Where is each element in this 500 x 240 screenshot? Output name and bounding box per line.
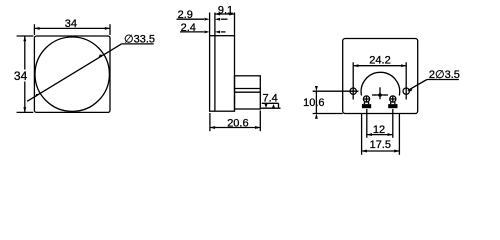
9.1 dimension line — [215, 13, 235, 15]
bezel front square — [34, 36, 110, 112]
2x3.5 underline — [427, 79, 459, 81]
svg-text:∅33.5: ∅33.5 — [124, 34, 155, 46]
12 arrow right — [388, 133, 393, 136]
10.6 bottom extension line — [313, 113, 343, 115]
svg-text:34: 34 — [14, 69, 28, 83]
rear body outline — [343, 39, 418, 114]
top dim arrow left — [34, 27, 39, 30]
svg-text:34: 34 — [65, 18, 77, 30]
rear body rectangle — [235, 76, 261, 109]
terminal right slot vertical — [392, 96, 394, 102]
leader underline — [122, 43, 154, 45]
top dim arrow right — [105, 27, 110, 30]
24.2 dimension line — [353, 65, 406, 67]
12 dimension line — [367, 134, 393, 136]
center target left tick — [372, 94, 376, 96]
9.1 arrow left — [215, 13, 220, 16]
leader arrowhead lower — [35, 94, 40, 98]
leader arrowhead upper — [99, 55, 104, 58]
17.5 arrow right — [394, 150, 399, 153]
svg-text:2∅3.5: 2∅3.5 — [429, 69, 460, 81]
10.6 dimension line — [315, 91, 317, 113]
top dim extension line left — [33, 24, 35, 35]
7.4 upper arrow — [264, 103, 267, 108]
left dim arrow bottom — [23, 107, 26, 112]
mounting hole left vertical centerline — [352, 62, 354, 99]
terminal right neck — [390, 102, 392, 104]
terminal right circle — [390, 96, 396, 102]
mounting hole right vertical centerline — [405, 62, 407, 99]
10.6 arrow bottom — [315, 114, 318, 119]
2.4 counter arrow left-pointing — [215, 30, 220, 33]
svg-text:10.6: 10.6 — [303, 97, 324, 109]
terminal left slot horizontal — [363, 98, 369, 100]
mounting hole left — [350, 88, 356, 94]
2x3.5 holes leader — [408, 80, 427, 91]
12 extension line right — [392, 109, 394, 138]
12 extension line left — [366, 109, 368, 138]
17.5 extension line left — [361, 114, 363, 155]
rear body upper step line — [235, 88, 261, 90]
24.2 arrow right — [401, 64, 406, 67]
24.2 arrow left — [353, 64, 358, 67]
movement dome arc — [361, 72, 400, 95]
svg-text:7.4: 7.4 — [263, 92, 278, 104]
17.5 dimension line — [362, 150, 400, 152]
20.6 arrow right — [255, 126, 260, 129]
top dim extension line right — [109, 24, 111, 35]
7.4 vertical connector — [278, 103, 280, 108]
20.6 arrow left — [210, 126, 215, 129]
2.9 counter arrow left-pointing — [215, 18, 220, 21]
2.9 arrow right-pointing — [204, 18, 209, 21]
left dim arrow top — [23, 36, 26, 41]
9.1 arrow right — [229, 13, 234, 16]
terminal left slot vertical — [366, 96, 368, 102]
svg-text:24.2: 24.2 — [369, 55, 390, 67]
left dimension line 34 lower part — [24, 82, 26, 113]
svg-text:20.6: 20.6 — [227, 118, 248, 130]
bezel side rectangle — [210, 36, 235, 112]
20.6 dimension line — [210, 127, 260, 129]
terminal left base — [362, 104, 371, 108]
2.4 leader line — [180, 31, 204, 33]
center target vertical arm — [379, 87, 381, 99]
left dim extension line top — [17, 35, 34, 37]
bezel back edge line — [214, 36, 216, 112]
center target right tick — [385, 94, 389, 96]
7.4 lower arrow — [272, 104, 275, 108]
center target dot — [378, 93, 382, 97]
2x3.5 leader arrowhead — [407, 89, 413, 92]
dial circle — [35, 37, 109, 111]
top dimension line 34 — [34, 27, 110, 29]
bezel back extension line up — [214, 13, 216, 36]
7.4 underline — [262, 102, 279, 104]
mounting hole left horizontal centerline — [313, 90, 359, 92]
7.4 bottom extension line — [260, 107, 280, 109]
17.5 arrow left — [362, 150, 367, 153]
20.6 extension line right — [259, 111, 261, 132]
diameter leader line — [27, 44, 121, 101]
terminal left neck — [363, 102, 365, 104]
front face extension line up — [209, 13, 211, 36]
terminal right slot horizontal — [390, 98, 396, 100]
terminal left circle — [363, 96, 369, 102]
left dim extension line bottom — [17, 111, 34, 113]
mounting hole right — [403, 88, 409, 94]
center target horizontal arm — [372, 94, 388, 96]
rear body lower step line — [235, 91, 261, 93]
2.9 counter tail — [221, 18, 228, 20]
svg-text:17.5: 17.5 — [370, 139, 391, 151]
svg-text:12: 12 — [373, 124, 385, 136]
case right extension line up — [234, 13, 236, 36]
2.9 leader line — [177, 18, 205, 20]
10.6 arrow top — [315, 86, 318, 91]
left dimension line 34 upper part — [24, 36, 26, 70]
12 arrow left — [367, 133, 372, 136]
17.5 extension line right — [398, 114, 400, 155]
terminal right base — [388, 104, 397, 108]
20.6 extension line left — [209, 113, 211, 131]
2.4 arrow right-pointing — [204, 30, 209, 33]
svg-text:9.1: 9.1 — [218, 5, 233, 17]
2.4 counter tail — [221, 31, 226, 33]
